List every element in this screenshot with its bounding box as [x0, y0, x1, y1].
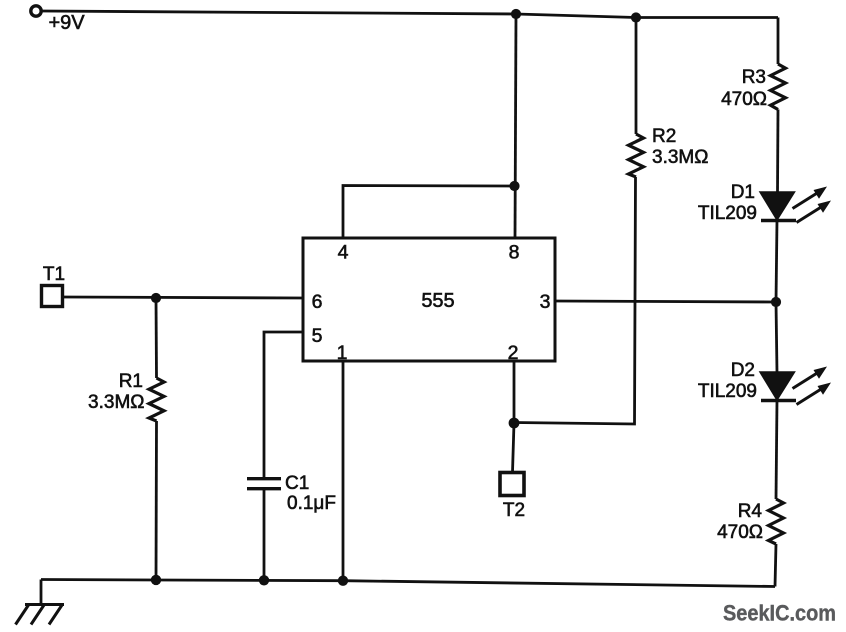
wire pin 8 riser [515, 14, 516, 238]
junction bottom rail / C1 [259, 575, 269, 585]
svg-text:3.3MΩ: 3.3MΩ [652, 147, 708, 168]
wire R3 to D1 [776, 110, 779, 194]
wire R1 upper lead [155, 298, 158, 378]
LED D1 arrow 1 [793, 187, 828, 209]
LED D2 arrow 1 [793, 367, 828, 389]
svg-text:SeekIC.com: SeekIC.com [723, 601, 836, 626]
resistor R3 zigzag [771, 64, 786, 110]
capacitor C1 top plate [247, 477, 281, 480]
svg-text:4: 4 [338, 242, 349, 264]
svg-text:0.1μF: 0.1μF [287, 493, 336, 514]
resistor R4 zigzag [769, 499, 784, 544]
wire pin 1 down [342, 361, 345, 581]
LED D1 cathode bar [761, 219, 796, 222]
wire R2 upper lead [635, 18, 638, 135]
ground symbol [16, 605, 65, 625]
wire top rail [42, 11, 778, 18]
capacitor C1 bottom plate [247, 487, 281, 490]
svg-text:C1: C1 [285, 473, 309, 494]
svg-text:TIL209: TIL209 [698, 381, 757, 402]
junction pin 2 / R2 branch [509, 418, 520, 429]
svg-text:R1: R1 [119, 371, 143, 392]
svg-text:6: 6 [312, 291, 323, 313]
svg-text:3: 3 [540, 291, 551, 313]
junction pin 3 / LED chain [771, 297, 781, 307]
svg-text:5: 5 [312, 325, 323, 347]
junction bottom rail / pin 1 [338, 576, 348, 586]
svg-text:R4: R4 [738, 501, 763, 522]
LED D1 triangle [760, 192, 795, 220]
wire junction to T2 [513, 423, 515, 472]
resistor R2 zigzag [629, 134, 644, 177]
wire D2 to R4 [776, 400, 777, 499]
svg-text:470Ω: 470Ω [717, 522, 763, 543]
wire T1 to pin 6 [63, 297, 303, 298]
LED D1 arrow 2 [797, 201, 832, 223]
svg-text:R2: R2 [652, 126, 676, 147]
svg-text:T2: T2 [503, 500, 525, 521]
wire pin 4 loop [343, 186, 514, 239]
svg-text:D2: D2 [731, 360, 755, 381]
LED D2 arrow 2 [797, 383, 832, 405]
wire R2 branch horizontal [514, 177, 636, 424]
touch plate T1 [42, 286, 63, 307]
LED D2 triangle [760, 372, 795, 400]
ground lead [40, 580, 43, 605]
svg-text:R3: R3 [742, 67, 766, 88]
wire R1 lower lead [155, 421, 158, 580]
junction top rail / pin 8 riser [511, 9, 521, 19]
wire R4 lower lead [775, 544, 776, 587]
svg-text:T1: T1 [43, 264, 65, 285]
wire LED chain top lead [777, 18, 780, 65]
resistor R1 zigzag [149, 378, 164, 421]
wire pin 5 to C1 [264, 332, 303, 478]
svg-text:555: 555 [421, 290, 454, 312]
svg-text:1: 1 [337, 342, 348, 364]
op-amp/timer U1 555 box [303, 238, 555, 361]
wire junction to D2 [776, 302, 777, 373]
svg-text:+9V: +9V [49, 12, 86, 34]
wire pin 3 to LED chain [555, 301, 776, 302]
wire C1 lower lead [263, 489, 266, 581]
terminal +9V [31, 6, 41, 16]
junction bottom rail / R1 [151, 575, 161, 585]
junction pin4 loop / pin8 riser [509, 181, 519, 191]
junction T1 wire / R1 [151, 293, 161, 303]
wire D1 to junction [776, 220, 777, 302]
touch plate T2 [500, 473, 524, 496]
svg-text:8: 8 [509, 242, 520, 264]
wire pin 2 down [513, 361, 516, 423]
svg-text:D1: D1 [731, 182, 755, 203]
svg-text:470Ω: 470Ω [721, 89, 767, 110]
svg-text:TIL209: TIL209 [698, 203, 757, 224]
svg-text:2: 2 [508, 342, 519, 364]
LED D2 cathode bar [761, 399, 796, 402]
junction top rail / R2 [631, 12, 641, 22]
wire bottom rail [41, 580, 775, 587]
svg-text:3.3MΩ: 3.3MΩ [88, 392, 144, 413]
